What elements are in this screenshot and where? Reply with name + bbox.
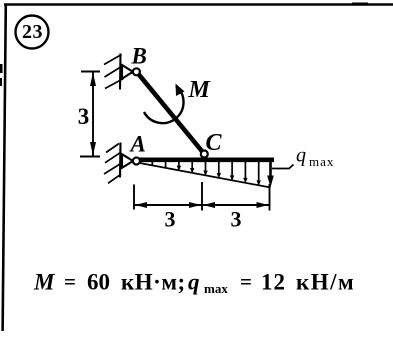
svg-text:B: B (131, 44, 147, 69)
svg-text:max: max (309, 154, 334, 169)
svg-text:кН/м: кН/м (296, 270, 355, 295)
svg-text:A: A (129, 132, 146, 157)
svg-text:3: 3 (165, 207, 176, 232)
svg-text:3: 3 (231, 207, 242, 232)
svg-text:23: 23 (22, 21, 43, 43)
svg-text:кН·м;: кН·м; (121, 270, 186, 295)
svg-text:12: 12 (261, 270, 286, 295)
svg-text:q: q (296, 145, 306, 167)
svg-text:q: q (188, 270, 200, 295)
svg-text:=: = (64, 270, 76, 294)
svg-text:3: 3 (78, 104, 90, 129)
svg-text:=: = (240, 270, 252, 294)
svg-text:C: C (206, 130, 223, 156)
svg-text:M: M (188, 77, 212, 103)
svg-text:M: M (33, 270, 56, 295)
svg-text:60: 60 (87, 270, 110, 295)
svg-text:max: max (204, 281, 228, 296)
